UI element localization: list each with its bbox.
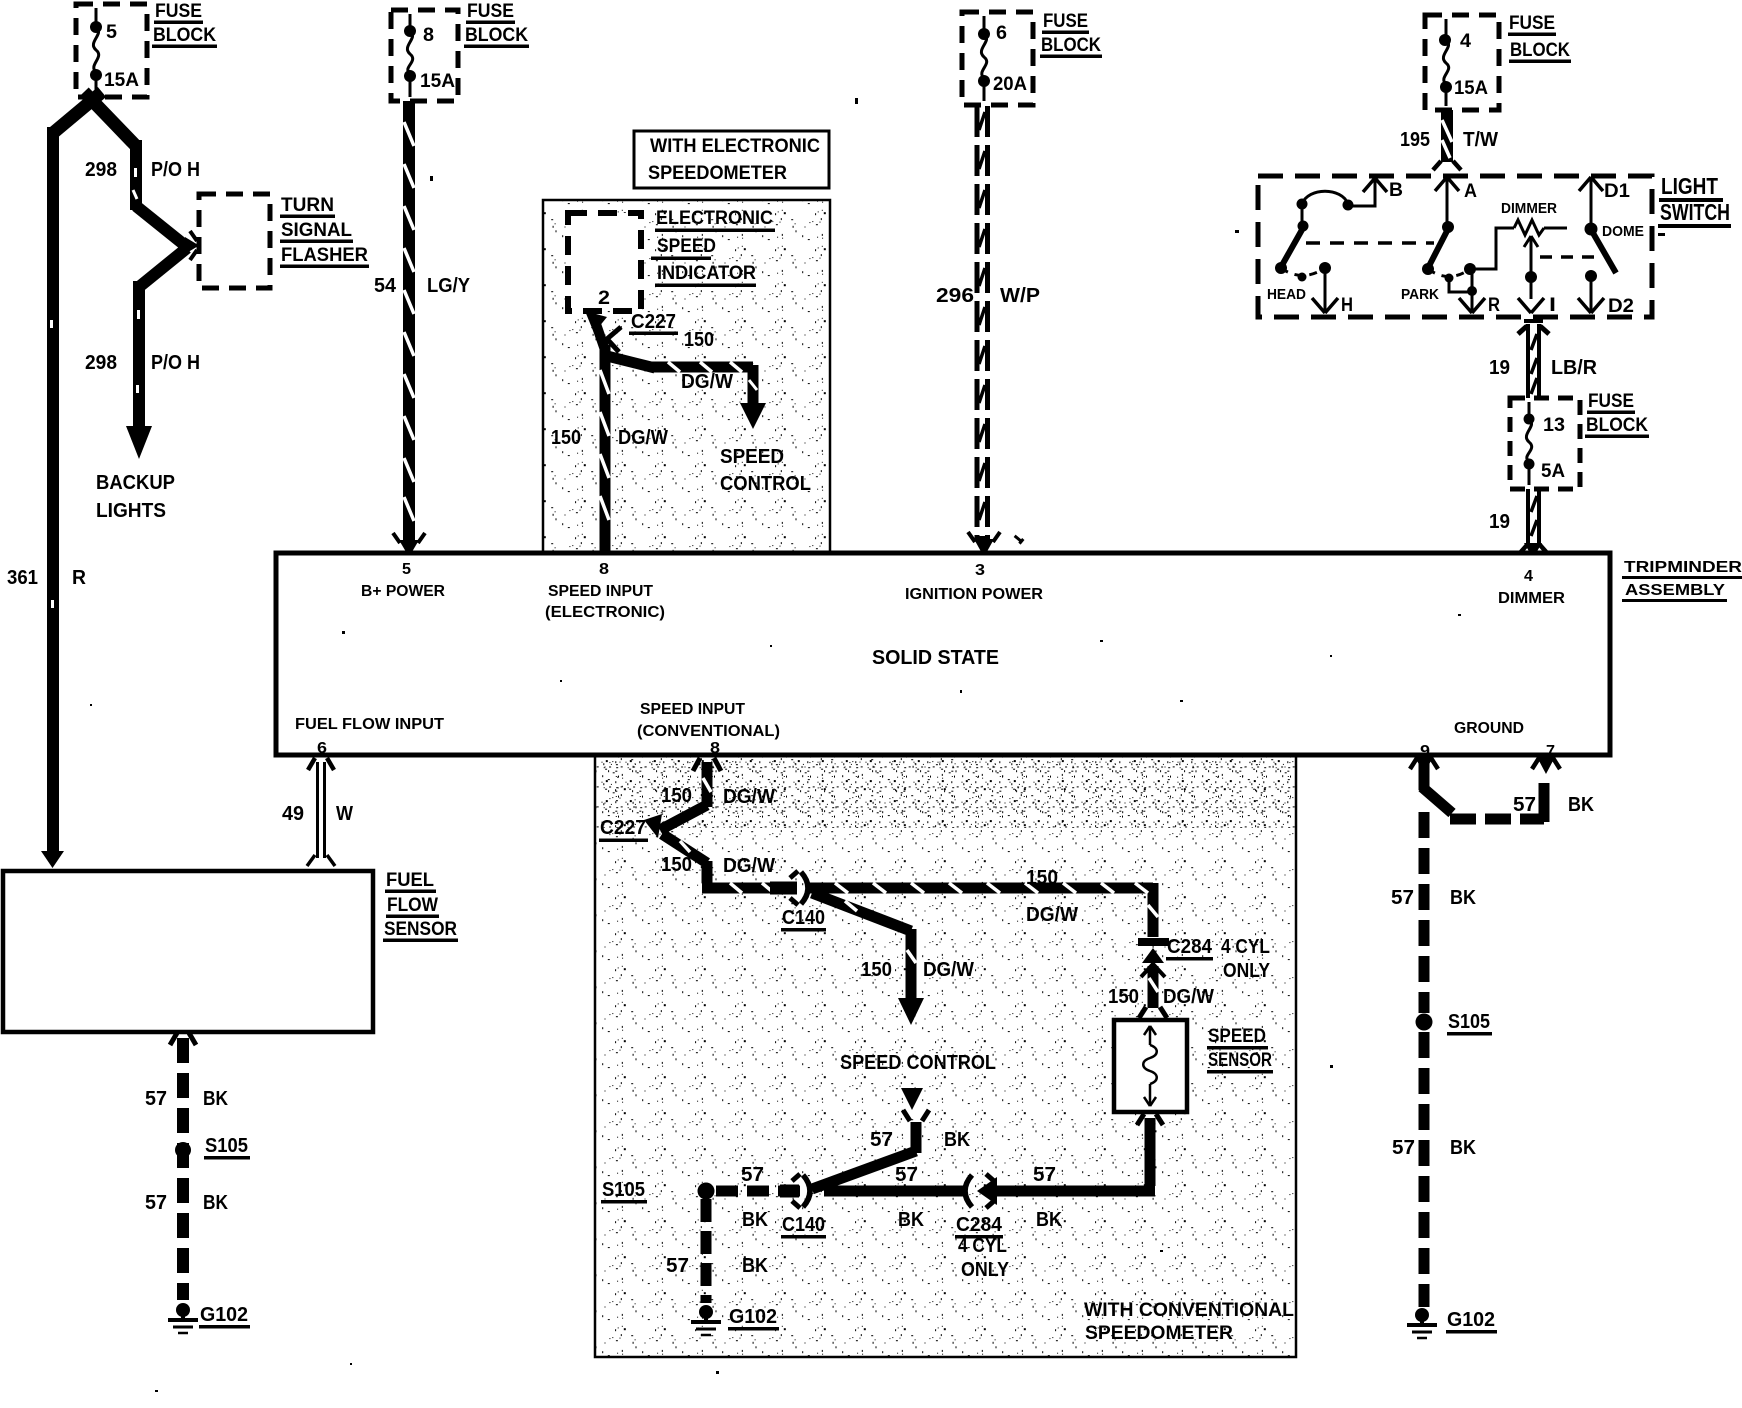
wire 150 DG/W label (sensor feed) bbox=[1108, 986, 1214, 1008]
svg-text:BK: BK bbox=[944, 1129, 970, 1151]
tripminder interior specks bbox=[342, 614, 1461, 702]
C284 label (upper) with 4 CYL ONLY bbox=[1166, 936, 1271, 982]
wire 150 DG/W (C140 to C284 horizontal run) bbox=[810, 883, 1158, 937]
svg-text:8: 8 bbox=[710, 740, 720, 757]
svg-text:SPEED CONTROL: SPEED CONTROL bbox=[840, 1052, 996, 1074]
svg-text:BLOCK: BLOCK bbox=[1041, 35, 1101, 56]
wire 57 BK (C284 lower to C140 lower) bbox=[824, 1186, 966, 1197]
svg-text:BK: BK bbox=[1036, 1209, 1062, 1231]
svg-text:BK: BK bbox=[203, 1088, 228, 1110]
svg-text:B+ POWER: B+ POWER bbox=[361, 583, 445, 600]
svg-text:15A: 15A bbox=[1454, 78, 1488, 99]
svg-text:296: 296 bbox=[936, 285, 974, 307]
wire 296 label bbox=[936, 285, 1040, 307]
wire 57 BK (fuel flow sensor to G102, dashed) bbox=[177, 1038, 189, 1300]
svg-text:298: 298 bbox=[85, 159, 117, 181]
svg-text:DG/W: DG/W bbox=[923, 959, 974, 981]
ground G102 (right) bbox=[1407, 1308, 1497, 1338]
svg-text:R: R bbox=[1488, 295, 1500, 316]
svg-text:15A: 15A bbox=[420, 71, 455, 92]
turn signal flasher label bbox=[280, 195, 369, 268]
wire 57 BK label (left segment) bbox=[741, 1164, 768, 1231]
svg-text:B: B bbox=[1389, 180, 1403, 201]
fuse block F3 label bbox=[1040, 11, 1102, 58]
tripminder pin 8 speed input conventional label bbox=[637, 701, 780, 757]
fuse block F2 border bbox=[391, 10, 458, 101]
svg-text:FUSE: FUSE bbox=[1043, 11, 1088, 32]
wire 19 (fuse block to tripminder pin 4) bbox=[1489, 489, 1548, 554]
speed control label (electronic) bbox=[720, 446, 811, 495]
wire 150 DG/W (C227 down to C140 run) bbox=[662, 834, 786, 893]
wire 57 BK (pin 9 down to S105 right, dashed) bbox=[1419, 812, 1430, 1013]
svg-text:361: 361 bbox=[7, 567, 38, 589]
fuel flow sensor label bbox=[383, 870, 458, 942]
svg-text:SPEED INPUT: SPEED INPUT bbox=[640, 701, 745, 718]
fuse 5 15A bbox=[90, 8, 139, 94]
fuse 13 5A bbox=[1524, 402, 1566, 485]
svg-text:W/P: W/P bbox=[1000, 285, 1040, 307]
svg-text:BK: BK bbox=[1450, 1137, 1476, 1159]
svg-text:FLOW: FLOW bbox=[387, 895, 438, 916]
svg-text:ONLY: ONLY bbox=[961, 1259, 1010, 1281]
wire 150 DG/W label (right run) bbox=[1026, 867, 1078, 926]
turn signal flasher box bbox=[199, 194, 270, 288]
stray scan specks bbox=[90, 98, 1333, 1392]
svg-text:T/W: T/W bbox=[1463, 129, 1498, 151]
svg-text:BLOCK: BLOCK bbox=[1586, 415, 1648, 436]
svg-text:SOLID STATE: SOLID STATE bbox=[872, 647, 999, 669]
tripminder assembly label bbox=[1622, 559, 1742, 602]
svg-text:SPEED: SPEED bbox=[657, 236, 716, 257]
connector: male arrow into turn signal flasher with fork bbox=[185, 231, 199, 260]
svg-text:S105: S105 bbox=[602, 1179, 645, 1201]
light switch PARK label and R output bbox=[1401, 286, 1500, 316]
svg-text:150: 150 bbox=[661, 854, 692, 876]
svg-text:BLOCK: BLOCK bbox=[1510, 40, 1570, 61]
svg-text:DOME: DOME bbox=[1602, 223, 1644, 240]
svg-text:SENSOR: SENSOR bbox=[1208, 1050, 1272, 1071]
svg-text:19: 19 bbox=[1489, 511, 1510, 533]
tripminder assembly box bbox=[276, 553, 1610, 755]
svg-text:SPEED: SPEED bbox=[720, 446, 784, 468]
svg-text:150: 150 bbox=[684, 329, 714, 351]
connector C284 (lower) bbox=[965, 1174, 997, 1208]
wire 298 P/O H (lower run to backup lights) bbox=[126, 248, 187, 459]
tripminder SOLID STATE label bbox=[872, 647, 999, 669]
wire 298 P/O H upper label bbox=[85, 159, 200, 181]
wire 195 T/W (striped, to light switch A) bbox=[1433, 110, 1461, 170]
svg-text:8: 8 bbox=[423, 25, 434, 46]
svg-text:3: 3 bbox=[975, 562, 985, 579]
wire 195 label bbox=[1400, 129, 1498, 151]
light switch terminal D1 and dome contacts bbox=[1579, 177, 1644, 273]
svg-text:H: H bbox=[1341, 295, 1353, 316]
ground G102 (middle) bbox=[691, 1305, 779, 1335]
svg-text:FUSE: FUSE bbox=[1509, 13, 1555, 34]
svg-text:4: 4 bbox=[1524, 568, 1533, 585]
wire 54 LG/Y (striped, to tripminder pin 5) bbox=[404, 101, 414, 542]
svg-text:BLOCK: BLOCK bbox=[465, 25, 528, 46]
svg-text:150: 150 bbox=[551, 427, 581, 449]
connector: tripminder pin 4 male arrow bbox=[1524, 543, 1542, 558]
connector C140 (lower) bbox=[780, 1174, 810, 1208]
fuse block F3 border bbox=[962, 12, 1033, 105]
connector: tripminder pin 6 fork bbox=[308, 758, 334, 770]
svg-text:5: 5 bbox=[402, 561, 411, 578]
svg-text:A: A bbox=[1464, 181, 1477, 202]
fuel flow sensor box bbox=[3, 871, 373, 1032]
svg-text:FUEL: FUEL bbox=[386, 870, 434, 891]
svg-text:13: 13 bbox=[1543, 415, 1565, 436]
svg-text:19: 19 bbox=[1489, 357, 1510, 379]
wire 49 W label bbox=[282, 803, 353, 825]
svg-text:G102: G102 bbox=[1447, 1309, 1495, 1331]
svg-text:BLOCK: BLOCK bbox=[153, 25, 216, 46]
svg-text:8: 8 bbox=[599, 561, 609, 578]
svg-text:SIGNAL: SIGNAL bbox=[281, 220, 352, 241]
fuse block F4 label bbox=[1508, 13, 1571, 63]
C284 label (lower) with 4 CYL ONLY bbox=[955, 1214, 1010, 1281]
wire 57 BK label (pin7 jumper) bbox=[1513, 794, 1594, 816]
connector C140 (upper) bbox=[770, 871, 808, 905]
backup lights label bbox=[96, 472, 175, 522]
wire 57 BK labels (left) bbox=[145, 1088, 228, 1214]
svg-text:DG/W: DG/W bbox=[681, 371, 733, 393]
svg-text:BACKUP: BACKUP bbox=[96, 472, 175, 494]
fuse 6 20A bbox=[978, 16, 1027, 101]
fuse 4 15A bbox=[1439, 19, 1488, 106]
svg-text:W: W bbox=[336, 803, 353, 825]
svg-text:SENSOR: SENSOR bbox=[384, 919, 457, 940]
connector: tripminder pin 5 male arrow bbox=[393, 533, 425, 557]
svg-text:C284: C284 bbox=[1167, 936, 1213, 958]
wire 57 BK label (middle down) bbox=[666, 1255, 768, 1277]
wire 150 DG/W label (speed control branch) bbox=[861, 959, 974, 981]
light switch mechanical link (dashed) bbox=[1306, 243, 1602, 257]
wire 54 label bbox=[374, 275, 471, 297]
svg-text:BK: BK bbox=[1450, 887, 1476, 909]
svg-text:LIGHT: LIGHT bbox=[1661, 173, 1718, 199]
connector C227 male arrow into indicator pin 2 bbox=[585, 311, 621, 352]
wire 19 LB/R (light switch I to fuse block) bbox=[1518, 321, 1549, 398]
svg-text:15A: 15A bbox=[104, 70, 139, 91]
wire 361 R (solid feed to fuel flow sensor) bbox=[41, 92, 102, 868]
connector: fuel flow sensor ground pin fork bbox=[170, 1033, 196, 1045]
svg-text:C227: C227 bbox=[600, 817, 646, 839]
splice S105 (right) bbox=[1416, 1011, 1493, 1036]
svg-text:C140: C140 bbox=[782, 1214, 825, 1236]
svg-text:DIMMER: DIMMER bbox=[1498, 590, 1565, 607]
ground G102 (left) bbox=[168, 1303, 250, 1333]
svg-text:S105: S105 bbox=[1448, 1011, 1490, 1033]
wire 57 BK (C140 lower to S105, dashed) bbox=[712, 1186, 800, 1197]
wire 57 BK label (middle segment) bbox=[895, 1164, 924, 1231]
svg-text:SPEEDOMETER: SPEEDOMETER bbox=[1085, 1323, 1233, 1344]
svg-text:SPEED INPUT: SPEED INPUT bbox=[548, 583, 653, 600]
wire 296 W/P (hollow striped, to tripminder pin 3) bbox=[975, 106, 991, 539]
fuse block F5 label bbox=[1585, 391, 1649, 438]
svg-text:HEAD: HEAD bbox=[1267, 286, 1306, 303]
svg-text:5: 5 bbox=[106, 22, 117, 43]
connector: tripminder pin 9 male arrow bbox=[1410, 757, 1438, 774]
svg-text:LIGHTS: LIGHTS bbox=[96, 500, 166, 522]
speed sensor coil symbol bbox=[1143, 1026, 1157, 1106]
tripminder pin 8 speed input electronic label bbox=[545, 561, 665, 621]
C140 label (upper) bbox=[781, 907, 826, 932]
wire 150 DG/W (electronic, pin 8 up to indicator) bbox=[596, 324, 609, 553]
electronic speed indicator box bbox=[568, 213, 641, 311]
svg-text:I: I bbox=[1549, 295, 1556, 316]
connector: tripminder pin 8 (conventional) fork bbox=[693, 758, 721, 771]
svg-text:BK: BK bbox=[742, 1255, 768, 1277]
svg-text:DG/W: DG/W bbox=[723, 855, 775, 877]
fuse block F2 label bbox=[464, 1, 529, 48]
svg-text:TRIPMINDER: TRIPMINDER bbox=[1624, 559, 1742, 576]
svg-text:ASSEMBLY: ASSEMBLY bbox=[1625, 582, 1725, 599]
svg-text:195: 195 bbox=[1400, 129, 1430, 151]
fuse block F1 border bbox=[76, 4, 147, 97]
C227 label (upper) bbox=[629, 311, 678, 335]
svg-text:5A: 5A bbox=[1541, 461, 1565, 482]
svg-text:DG/W: DG/W bbox=[1026, 904, 1078, 926]
svg-text:DG/W: DG/W bbox=[1163, 986, 1214, 1008]
fuse block F4 border bbox=[1425, 15, 1499, 110]
splice S105 (left) bbox=[175, 1135, 250, 1160]
C140 label (lower) bbox=[781, 1214, 826, 1239]
connector: tripminder pin 3 male arrow bbox=[968, 532, 1022, 557]
svg-text:2: 2 bbox=[598, 288, 610, 309]
speed sensor label bbox=[1207, 1026, 1273, 1074]
svg-text:BK: BK bbox=[1568, 794, 1594, 816]
connector: speed sensor bottom fork bbox=[1137, 1114, 1163, 1125]
wire 19 LB/R label bbox=[1489, 357, 1598, 379]
speed sensor box bbox=[1114, 1020, 1187, 1112]
svg-text:D1: D1 bbox=[1604, 181, 1630, 202]
light switch D2 output bbox=[1578, 270, 1634, 317]
svg-text:57: 57 bbox=[1392, 1137, 1415, 1159]
wire 150 DG/W label (above C227) bbox=[661, 785, 775, 808]
wire 150 DG/W label (below C227) bbox=[661, 854, 775, 877]
svg-text:57: 57 bbox=[1033, 1164, 1056, 1186]
wire 298 P/O H (upper run to turn signal flasher) bbox=[84, 92, 187, 247]
svg-text:SPEEDOMETER: SPEEDOMETER bbox=[648, 163, 787, 184]
svg-text:BK: BK bbox=[203, 1192, 228, 1214]
svg-text:57: 57 bbox=[895, 1164, 918, 1186]
wire 150 DG/W labels (electronic branch) bbox=[551, 329, 733, 449]
light switch label bbox=[1658, 173, 1731, 236]
fuse 8 15A bbox=[404, 14, 455, 97]
svg-text:DG/W: DG/W bbox=[723, 786, 775, 808]
shaded region: with conventional speedometer bbox=[595, 756, 1296, 1358]
light switch terminal B bbox=[1352, 178, 1403, 206]
wire 150 DG/W (pin 8 down to C227) bbox=[660, 762, 711, 830]
svg-text:INDICATOR: INDICATOR bbox=[657, 263, 756, 284]
svg-text:WITH ELECTRONIC: WITH ELECTRONIC bbox=[650, 136, 820, 157]
connector C284 (upper) bbox=[1138, 938, 1169, 977]
svg-text:SPEED: SPEED bbox=[1208, 1026, 1266, 1047]
svg-text:BK: BK bbox=[898, 1209, 924, 1231]
wire 298 P/O H lower label bbox=[85, 352, 200, 374]
fuse block F1 label bbox=[152, 1, 217, 48]
svg-text:4 CYL: 4 CYL bbox=[958, 1235, 1007, 1257]
svg-text:150: 150 bbox=[1108, 986, 1139, 1008]
svg-text:P/O H: P/O H bbox=[151, 352, 200, 374]
svg-text:BK: BK bbox=[742, 1209, 768, 1231]
tripminder pin 4 dimmer label bbox=[1498, 568, 1565, 607]
svg-text:D2: D2 bbox=[1608, 296, 1634, 317]
splice S105 (middle) bbox=[601, 1179, 715, 1204]
svg-text:57: 57 bbox=[741, 1164, 764, 1186]
wire 150 DG/W (C140 branch to speed control conventional) bbox=[812, 893, 924, 1025]
light switch park contacts bbox=[1422, 221, 1477, 296]
svg-text:54: 54 bbox=[374, 275, 397, 297]
wire 150 DG/W branch to speed control (electronic) bbox=[603, 355, 766, 429]
svg-text:57: 57 bbox=[870, 1129, 893, 1151]
light switch terminal A bbox=[1435, 177, 1477, 226]
wire 49 W (double line to fuel flow sensor) bbox=[307, 762, 335, 866]
svg-text:FUEL FLOW INPUT: FUEL FLOW INPUT bbox=[295, 716, 444, 733]
svg-text:C227: C227 bbox=[631, 311, 676, 333]
svg-text:150: 150 bbox=[861, 959, 892, 981]
fuse block F5 border bbox=[1510, 398, 1580, 489]
wire 57 BK (S105 right down to G102, dashed) bbox=[1419, 1032, 1430, 1307]
svg-text:S105: S105 bbox=[205, 1135, 248, 1157]
svg-text:57: 57 bbox=[145, 1088, 167, 1110]
svg-text:6: 6 bbox=[996, 23, 1007, 44]
svg-text:ELECTRONIC: ELECTRONIC bbox=[656, 208, 773, 229]
svg-text:GROUND: GROUND bbox=[1454, 720, 1524, 737]
svg-text:FLASHER: FLASHER bbox=[281, 245, 368, 266]
svg-text:49: 49 bbox=[282, 803, 304, 825]
svg-text:(ELECTRONIC): (ELECTRONIC) bbox=[545, 604, 665, 621]
svg-text:R: R bbox=[72, 567, 87, 589]
svg-text:150: 150 bbox=[661, 785, 692, 807]
light switch dimmer wiper and I output bbox=[1518, 236, 1556, 316]
C227 label (lower) bbox=[599, 817, 648, 842]
svg-text:LB/R: LB/R bbox=[1551, 357, 1598, 379]
svg-text:4 CYL: 4 CYL bbox=[1221, 936, 1270, 958]
wire 57 BK label (speed control branch) bbox=[870, 1129, 970, 1151]
svg-text:WITH CONVENTIONAL: WITH CONVENTIONAL bbox=[1084, 1300, 1294, 1321]
wire 57 BK label (right segment) bbox=[1033, 1164, 1062, 1231]
tripminder pin 6 fuel flow input label bbox=[295, 716, 444, 757]
wire 57 BK (pin 9 jumper to pin 7) bbox=[1422, 762, 1544, 822]
svg-text:(CONVENTIONAL): (CONVENTIONAL) bbox=[637, 723, 780, 740]
svg-text:57: 57 bbox=[1513, 794, 1536, 816]
with electronic speedometer caption box bbox=[634, 131, 829, 188]
svg-text:C284: C284 bbox=[956, 1214, 1003, 1236]
svg-text:G102: G102 bbox=[200, 1304, 248, 1326]
svg-text:IGNITION POWER: IGNITION POWER bbox=[905, 586, 1043, 603]
light switch box bbox=[1258, 176, 1652, 317]
svg-text:FUSE: FUSE bbox=[155, 1, 202, 22]
svg-text:G102: G102 bbox=[729, 1306, 777, 1328]
connector C227 (conventional side) bbox=[644, 814, 672, 842]
wire 361 R label bbox=[7, 567, 87, 589]
svg-text:150: 150 bbox=[1026, 867, 1058, 889]
svg-text:298: 298 bbox=[85, 352, 117, 374]
svg-text:4: 4 bbox=[1460, 31, 1471, 52]
svg-text:57: 57 bbox=[1391, 887, 1414, 909]
tripminder pin 5 B+ POWER label bbox=[361, 561, 445, 600]
light switch head rotary contacts bbox=[1275, 191, 1354, 281]
light switch HEAD label and H output bbox=[1267, 268, 1353, 316]
wire 57 BK label (right upper) bbox=[1391, 887, 1476, 909]
svg-text:DG/W: DG/W bbox=[618, 427, 668, 449]
svg-text:FUSE: FUSE bbox=[1588, 391, 1634, 412]
svg-text:20A: 20A bbox=[993, 74, 1027, 95]
svg-text:6: 6 bbox=[317, 740, 327, 757]
svg-text:57: 57 bbox=[666, 1255, 689, 1277]
svg-text:LG/Y: LG/Y bbox=[427, 275, 471, 297]
wire 57 BK (speed sensor to C284 lower) bbox=[985, 1118, 1155, 1191]
svg-text:P/O H: P/O H bbox=[151, 159, 200, 181]
tripminder pin 3 ignition power label bbox=[905, 562, 1043, 603]
electronic speed indicator label bbox=[651, 208, 775, 287]
with conventional speedometer label bbox=[1084, 1300, 1294, 1344]
wire 57 BK branch to speed control (diagonal up) bbox=[812, 1088, 929, 1189]
svg-text:TURN: TURN bbox=[281, 195, 334, 216]
wire 150 DG/W (C284 to speed sensor) bbox=[1139, 966, 1167, 1018]
svg-text:FUSE: FUSE bbox=[467, 1, 514, 22]
shaded region: with electronic speedometer bbox=[543, 200, 830, 553]
tripminder ground pins label bbox=[1420, 720, 1555, 760]
svg-text:CONTROL: CONTROL bbox=[720, 473, 811, 495]
light switch dimmer rheostat bbox=[1470, 200, 1567, 269]
wire 57 BK label (right lower) bbox=[1392, 1137, 1476, 1159]
svg-text:DIMMER: DIMMER bbox=[1501, 200, 1557, 217]
svg-text:ONLY: ONLY bbox=[1223, 960, 1271, 982]
svg-text:C140: C140 bbox=[782, 907, 825, 929]
wire 57 BK (S105 middle down to G102, dashed) bbox=[701, 1199, 712, 1303]
svg-text:SWITCH: SWITCH bbox=[1660, 199, 1730, 225]
svg-text:PARK: PARK bbox=[1401, 286, 1439, 303]
svg-text:57: 57 bbox=[145, 1192, 167, 1214]
connector: tripminder pin 7 fork bbox=[1532, 757, 1560, 774]
speed control label (conventional) bbox=[840, 1052, 996, 1074]
